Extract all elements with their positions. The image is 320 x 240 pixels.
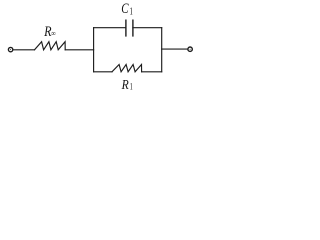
svg-text:1: 1 [130,6,133,17]
wire: R-inf to node A [65,49,93,51]
svg-text:C: C [121,1,129,17]
node B: right branch junction (vertical) [161,28,163,72]
wire: top branch right segment [133,27,162,29]
wire: bottom branch right segment [142,71,162,73]
resistor R1 [112,65,142,72]
label R1 [121,78,133,93]
svg-text:R: R [121,78,129,93]
label C1 [121,1,133,17]
svg-text:1: 1 [130,82,133,92]
svg-text:∞: ∞ [51,28,55,38]
terminal left [8,47,12,51]
capacitor C1 [126,20,133,36]
svg-text:R: R [43,24,51,40]
node A: left branch junction (vertical) [93,28,95,72]
wire: top branch left segment [94,27,126,29]
wire: bottom branch left segment [94,71,112,73]
resistor R-inf [35,42,66,50]
terminal right [188,47,192,51]
label R-inf [43,24,56,40]
wire: left terminal to R-inf [13,49,34,51]
wire: node B to right terminal [162,48,188,50]
